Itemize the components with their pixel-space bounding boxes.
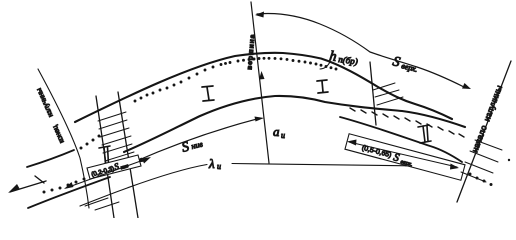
node scattered dots bottom right — [469, 159, 511, 186]
svg-text:и: и — [281, 131, 285, 140]
node right cut left edge — [370, 62, 376, 125]
node nachalo izluchiny diagonal — [457, 61, 511, 202]
node left value box — [87, 155, 141, 179]
wire apex arrowhead on vertical line — [259, 71, 265, 80]
node dotted line below upper bank — [134, 57, 338, 103]
wire bend lower bank — [124, 96, 465, 152]
svg-text:a: a — [273, 124, 280, 139]
wire right box dimension arrows — [349, 142, 457, 167]
node stray hatch below left box — [85, 198, 119, 210]
node konets izluchiny diagonal — [38, 69, 89, 208]
wire left arm lower bank — [28, 177, 110, 208]
wire lower guide line right cut — [340, 117, 462, 162]
wire S_niv dimension curve — [134, 119, 257, 162]
node roman II right — [418, 125, 431, 143]
svg-text:λ: λ — [208, 156, 215, 171]
node roman II left — [99, 146, 112, 165]
node hatch beyond diagonal right — [461, 140, 502, 182]
node left arm dotted shoal edge — [43, 135, 102, 194]
node right value box — [345, 134, 465, 181]
wire left arm upper bank — [27, 150, 74, 167]
node left cut right edge — [118, 92, 138, 218]
wire lambda baseline — [232, 164, 450, 167]
wire left box dimension arrows — [66, 158, 149, 188]
wire flow direction arrow — [10, 181, 46, 192]
node roman I left — [202, 86, 214, 101]
wire lambda lead-in line — [80, 165, 207, 207]
wire bend upper bank — [75, 53, 452, 122]
node roman I right — [317, 80, 328, 93]
wire S_verh dimension curve — [257, 13, 464, 87]
node вершина line — [251, 2, 269, 163]
node left cut hatching — [98, 112, 134, 161]
node tick marks below lower bank right — [350, 108, 464, 137]
node left cut left edge — [96, 96, 114, 218]
node right cut hatching — [373, 83, 403, 105]
svg-text:и: и — [217, 162, 221, 171]
